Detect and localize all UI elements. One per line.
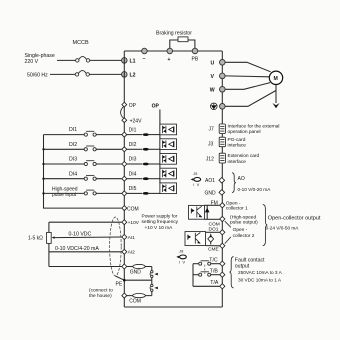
optocoupler DI5 (160, 183, 177, 194)
terminal DO1 (220, 230, 225, 235)
svg-text:0-10 VDC: 0-10 VDC (69, 232, 92, 238)
terminal DI1 (122, 127, 137, 137)
terminal AO1 (205, 178, 225, 185)
optocoupler DI4 (160, 168, 177, 179)
wire OP rail to optocouplers (159, 110, 161, 184)
svg-text:PB: PB (192, 57, 199, 63)
wire MCCB to terminal L1 (90, 59, 122, 61)
svg-text:T/B: T/B (210, 269, 219, 275)
svg-text:operation panel: operation panel (228, 129, 261, 135)
svg-text:Open -: Open - (233, 227, 248, 233)
terminal GND analog out (205, 190, 225, 197)
wire inverter block left edge (123, 51, 125, 307)
svg-text:collector 2: collector 2 (233, 233, 255, 239)
svg-text:GND: GND (205, 190, 217, 196)
svg-text:J8: J8 (179, 249, 183, 253)
svg-text:Interface for the external: Interface for the external (228, 124, 280, 130)
svg-text:1-5 kΩ: 1-5 kΩ (28, 236, 43, 242)
svg-text:COM: COM (127, 207, 139, 213)
switch DI2 (44, 142, 122, 151)
svg-text:J12: J12 (206, 157, 214, 163)
svg-text:OP: OP (152, 104, 160, 110)
terminal T/B (210, 269, 225, 278)
breaker MCCB pole 1 (76, 57, 90, 63)
terminal CME (208, 243, 225, 252)
wire potentiometer wiper to AI1 (54, 236, 121, 239)
wire DO1 box to CME (206, 245, 220, 247)
svg-text:interface: interface (228, 159, 247, 165)
connector J7 (209, 124, 226, 134)
terminal plus (167, 48, 173, 63)
wire inverter block right edge (221, 51, 223, 307)
diode arrow DO1 (206, 232, 220, 244)
wire V to motor (225, 75, 269, 78)
switch DI5 high-speed pulse (44, 186, 122, 198)
svg-text:OP: OP (129, 103, 137, 109)
bracket AO group (232, 173, 236, 193)
svg-text:+10V: +10V (128, 220, 140, 226)
relay fault contact (193, 261, 220, 287)
optocoupler DI3 (160, 154, 177, 165)
resistor DI1 (127, 133, 160, 136)
resistor braking (178, 37, 188, 42)
svg-text:L2: L2 (130, 73, 136, 79)
terminal ground (211, 103, 226, 110)
jumper J8 selector (176, 249, 186, 264)
svg-text:(connect to: (connect to (89, 288, 113, 294)
svg-text:AI2: AI2 (128, 250, 136, 256)
wire braking resistor left lead (170, 40, 178, 48)
terminal PB (192, 48, 199, 62)
switch DI1 (44, 127, 122, 136)
label open-collector output (266, 216, 321, 231)
terminal W (210, 87, 225, 94)
switch DI3 (44, 157, 122, 166)
svg-text:DI1: DI1 (69, 127, 77, 133)
shield ferrite oval COM (127, 294, 152, 298)
svg-text:setting frequency: setting frequency (142, 219, 179, 225)
svg-text:V: V (211, 74, 215, 80)
connector J3 (208, 137, 225, 147)
jumper J10 PE-COM (150, 280, 158, 295)
wire L2 input (50, 73, 75, 75)
shield ellipse analog cable (110, 217, 125, 280)
svg-text:T/C: T/C (209, 257, 218, 263)
svg-text:Power supply for: Power supply for (142, 213, 178, 219)
svg-text:DO1: DO1 (209, 227, 219, 233)
label power supply for frequency setting (142, 213, 179, 231)
wire potentiometer bottom to GND (49, 266, 122, 268)
optocoupler FM output (189, 205, 205, 219)
wire inverter block top edge (124, 50, 222, 52)
svg-text:AO: AO (238, 176, 245, 182)
svg-text:M: M (274, 76, 278, 82)
wire L1 input (57, 59, 76, 61)
svg-text:MCCB: MCCB (73, 40, 90, 46)
svg-text:W: W (210, 88, 215, 94)
label J3 PG-card (228, 137, 247, 149)
terminal +10V (122, 220, 140, 226)
terminal COM output (209, 216, 225, 227)
svg-text:PE: PE (116, 281, 123, 287)
wire ground to motor earth (225, 91, 276, 107)
svg-text:I: I (193, 183, 194, 187)
wire braking resistor right lead (188, 40, 195, 48)
svg-text:DI3: DI3 (69, 157, 77, 163)
label open-collector 1 (226, 200, 258, 225)
switch DI4 (44, 171, 122, 180)
svg-text:V: V (183, 260, 186, 264)
terminal AI2 (122, 249, 135, 255)
svg-text:interface: interface (228, 143, 247, 149)
svg-text:J5: J5 (193, 172, 197, 176)
svg-text:COM: COM (129, 298, 141, 304)
svg-text:Braking resistor: Braking resistor (156, 31, 192, 37)
svg-text:DI4: DI4 (69, 171, 77, 177)
svg-text:DI5: DI5 (129, 186, 137, 192)
terminal L1 (122, 58, 128, 64)
svg-text:J3: J3 (208, 142, 214, 148)
svg-text:J7: J7 (209, 127, 215, 133)
svg-text:DI3: DI3 (129, 157, 137, 163)
bracket open-collector output (263, 204, 268, 245)
svg-text:V: V (197, 183, 200, 187)
svg-text:U: U (211, 61, 215, 67)
svg-text:0-10 V/0-20 mA: 0-10 V/0-20 mA (238, 187, 272, 192)
svg-text:Extension card: Extension card (228, 153, 260, 159)
label single-phase supply (25, 53, 55, 79)
terminal T/A (210, 280, 225, 289)
breaker MCCB pole 2 (75, 71, 89, 77)
svg-text:220 V: 220 V (25, 59, 39, 65)
label connect to the house (89, 288, 113, 300)
potentiometer 1-5k (28, 222, 55, 266)
optocoupler DI2 (160, 139, 177, 150)
svg-text:output: output (235, 263, 250, 269)
wire MCCB to terminal L2 (89, 73, 121, 75)
terminal GND analog (122, 264, 142, 276)
terminal COM digital (122, 206, 139, 213)
node DI bus corner (42, 135, 121, 209)
svg-text:DI1: DI1 (129, 127, 137, 133)
terminal V (211, 73, 226, 80)
svg-text:+10 V 10 mA: +10 V 10 mA (145, 225, 174, 231)
resistor DI4 (127, 177, 160, 180)
svg-text:T/A: T/A (210, 280, 219, 286)
terminal U (211, 60, 226, 67)
wire FM collector arrow (205, 205, 220, 219)
shield ferrite oval GND (127, 264, 152, 268)
terminal FM (211, 201, 225, 208)
wire U to motor (225, 62, 271, 72)
svg-text:0-10 VDC/4-20 mA: 0-10 VDC/4-20 mA (55, 246, 99, 252)
terminal minus (142, 48, 148, 62)
node PE (116, 279, 152, 287)
resistor DI3 (127, 163, 160, 166)
svg-text:GND: GND (130, 270, 142, 276)
terminal DI5 (122, 186, 137, 196)
terminal L2 (122, 72, 128, 78)
svg-text:the house): the house) (89, 293, 112, 299)
svg-text:AI1: AI1 (128, 235, 136, 241)
svg-text:0-24 V/0-50 mA: 0-24 V/0-50 mA (266, 225, 300, 230)
svg-text:L1: L1 (130, 59, 136, 65)
svg-text:AO1: AO1 (205, 178, 215, 184)
connector J12 (206, 153, 226, 163)
optocoupler DO1 output (185, 232, 206, 246)
ground arrow below motor (273, 85, 280, 108)
svg-text:I: I (179, 260, 180, 264)
svg-text:+: + (168, 57, 171, 63)
svg-text:CME: CME (208, 246, 219, 252)
terminal DI2 (122, 142, 137, 152)
svg-text:DI4: DI4 (129, 171, 137, 177)
svg-text:50/60 Hz: 50/60 Hz (27, 73, 48, 79)
jumper J4 GND-PE (150, 267, 158, 281)
svg-text:DI2: DI2 (69, 142, 77, 148)
svg-text:pulse output): pulse output) (230, 220, 258, 226)
optocoupler DI1 (160, 124, 177, 135)
terminal DI4 (122, 171, 137, 181)
bracket open-collector 2 (225, 221, 255, 243)
resistor DI5 (127, 192, 160, 195)
label J12 extension card (228, 153, 260, 165)
svg-text:250VAC 10mA to 3 A: 250VAC 10mA to 3 A (238, 270, 283, 275)
svg-text:collector 1: collector 1 (226, 205, 248, 211)
jumper J5 I/V selector (191, 172, 201, 187)
motor M (269, 71, 282, 84)
jumper OP on left edge (121, 102, 137, 122)
svg-text:–: – (143, 56, 146, 62)
wire W to motor (225, 83, 270, 90)
resistor DI2 (127, 148, 160, 151)
svg-text:+24V: +24V (130, 118, 142, 124)
wire +10V to potentiometer top (49, 221, 122, 223)
svg-text:DI2: DI2 (129, 142, 137, 148)
wire to AI2 (49, 251, 122, 253)
terminal T/C (209, 257, 225, 266)
svg-text:Open-collector output: Open-collector output (268, 216, 321, 222)
label fault contact output (235, 258, 283, 283)
svg-text:30 VDC 10mA to 1 A: 30 VDC 10mA to 1 A (238, 277, 282, 282)
terminal COM analog (122, 293, 141, 304)
bracket fault contact output (230, 257, 234, 288)
terminal AI1 (122, 235, 135, 241)
wire inverter block bottom edge (124, 306, 222, 308)
label J7 interface (228, 124, 280, 136)
svg-text:PG-card: PG-card (228, 137, 246, 143)
terminal DI3 (122, 157, 137, 167)
